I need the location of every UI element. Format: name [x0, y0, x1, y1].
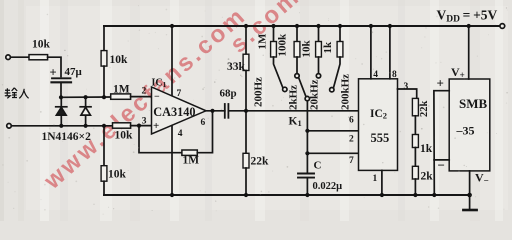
junction gnd/2k [413, 193, 417, 197]
contact 2kHz [295, 74, 299, 78]
svg-text:8: 8 [392, 70, 397, 80]
switch wiper arm [299, 78, 306, 97]
contact 200Hz [283, 87, 287, 91]
watermark fragment s.com [225, 0, 306, 58]
output wire [206, 110, 225, 112]
range resistor 1k vertical [339, 26, 341, 42]
wire cap to node [60, 83, 62, 98]
wire top input [10, 56, 29, 58]
resistor 10k to pin3 [113, 123, 131, 128]
diode D2 leads [85, 97, 87, 106]
junction rail/1k range [338, 24, 342, 28]
junction rail/555 pin4 [369, 24, 373, 28]
contact 20kHz [316, 74, 320, 78]
svg-text:SMB: SMB [459, 96, 488, 111]
feedback wire down [139, 126, 182, 153]
junction cap47u/node A [59, 95, 63, 99]
svg-text:7: 7 [349, 156, 354, 166]
input terminal bottom [7, 124, 12, 129]
svg-text:1M: 1M [113, 84, 130, 96]
svg-text:22k: 22k [251, 156, 270, 168]
junction wiper/pin7 [305, 151, 309, 155]
watermark www.elecfans.com [38, 2, 252, 195]
V+ wire [468, 26, 470, 79]
V- wire [469, 171, 471, 195]
resistor 2k divider [412, 166, 418, 179]
svg-text:100k: 100k [277, 33, 289, 57]
junction pin3 node [137, 124, 141, 128]
555 pin3 wire [398, 89, 417, 98]
range resistor 1M vertical [273, 26, 275, 42]
svg-text:200Hz: 200Hz [253, 77, 265, 107]
op-amp U1 triangle [152, 87, 207, 134]
junction gnd/C [305, 193, 309, 197]
junction node K1 [244, 109, 248, 113]
junction rail/1M range [271, 24, 275, 28]
range resistor 10k vertical [318, 26, 320, 42]
resistor 22k below node [245, 111, 247, 154]
IC2 555 box [359, 79, 398, 171]
svg-text:2: 2 [349, 134, 354, 144]
SMB meter box [449, 79, 490, 171]
svg-text:47μ: 47μ [65, 66, 83, 78]
capacitor C 0.022u [298, 173, 314, 175]
resistor 1M feedback [182, 150, 197, 155]
junction gnd/22k [244, 193, 248, 197]
junction gnd/meter input [432, 193, 436, 197]
wire 68p to node K [228, 110, 246, 112]
junction rail/555 pin8 [388, 24, 392, 28]
ground symbol [469, 195, 471, 209]
resistor 1M series [111, 94, 131, 99]
junction diode D2 top [84, 95, 88, 99]
contact 200kHz [330, 88, 334, 92]
junction gnd/pin4 [170, 193, 174, 197]
lead 2k-gnd [414, 179, 416, 195]
svg-text:555: 555 [371, 131, 390, 145]
cap C to ground [306, 178, 308, 195]
junction 10k pullup/node A [102, 95, 106, 99]
resistor 10k pullup vertical [103, 26, 105, 51]
1M lead to contact [274, 57, 283, 88]
555 pin8 wire [389, 26, 391, 79]
junction rail/10k range [316, 24, 320, 28]
wiper pole circle [305, 96, 309, 100]
wire to cap corner [48, 57, 61, 76]
range resistor 100k vertical [296, 26, 298, 42]
svg-text:2k: 2k [421, 171, 434, 183]
svg-text:+: + [50, 66, 57, 80]
svg-text:C: C [314, 160, 322, 172]
svg-text:10k: 10k [32, 39, 51, 51]
svg-text:10k: 10k [108, 169, 127, 181]
resistor 33k [245, 26, 247, 54]
op-amp pin4 wire [171, 126, 173, 195]
junction rail/V+ [467, 24, 471, 28]
svg-text:1k: 1k [420, 143, 433, 155]
junction gnd/555 pin1 [380, 193, 384, 197]
1k lead to contact [334, 57, 341, 88]
diode D1 [56, 106, 67, 108]
svg-text:VDD = +5V: VDD = +5V [437, 8, 498, 25]
junction diode D2 bottom [84, 124, 88, 128]
resistor 22k divider [412, 98, 418, 115]
resistor 10k lower vertical [103, 126, 105, 166]
svg-text:−: − [438, 158, 445, 173]
junction diode D1 bottom [59, 124, 63, 128]
svg-text:1: 1 [373, 174, 378, 184]
diode D2 [80, 106, 91, 108]
svg-text:K1: K1 [289, 115, 302, 128]
svg-text:+: + [153, 120, 159, 132]
resistor 10k input series [29, 55, 48, 60]
svg-text:6: 6 [201, 118, 206, 128]
svg-text:CA3140: CA3140 [153, 105, 195, 119]
meter + input wire [434, 91, 449, 195]
diode D1 leads [60, 97, 62, 106]
svg-text:+: + [437, 76, 444, 91]
svg-text:2: 2 [142, 87, 147, 97]
svg-text:1M: 1M [183, 155, 200, 167]
svg-text:200kHz: 200kHz [340, 74, 352, 110]
svg-text:2kHz: 2kHz [288, 85, 300, 110]
wire 1M to pin2 [131, 96, 152, 98]
wire bottom input [11, 125, 112, 127]
svg-text:−: − [154, 92, 160, 103]
555 pin4 wire [370, 26, 372, 79]
top VDD rail [104, 25, 500, 27]
wire to pin3 [131, 125, 152, 127]
svg-text:1k: 1k [322, 41, 334, 54]
junction output/feedback [210, 109, 214, 113]
node wire to 1M [61, 96, 111, 98]
ground rail [104, 194, 470, 196]
label input chinese [5, 88, 29, 99]
10k lead [318, 57, 320, 73]
svg-text:10k: 10k [301, 40, 313, 58]
svg-text:IC2: IC2 [370, 108, 387, 121]
svg-text:20kHz: 20kHz [309, 79, 321, 110]
svg-text:IC1: IC1 [152, 78, 167, 90]
svg-text:1M: 1M [257, 33, 269, 50]
svg-text:3: 3 [142, 117, 147, 127]
meter - input wire [434, 159, 449, 161]
feedback wire up [197, 111, 212, 153]
svg-text:7: 7 [177, 89, 182, 99]
wire to 555 pin7 [307, 152, 358, 154]
resistor 1k divider [412, 135, 418, 148]
lead 1k-2k [414, 148, 416, 167]
lead 22k-1k [414, 116, 416, 135]
svg-text:4: 4 [178, 129, 183, 139]
svg-text:22k: 22k [419, 101, 430, 118]
junction rail/100k range [295, 24, 299, 28]
svg-text:1N4146×2: 1N4146×2 [42, 131, 92, 143]
555 pin1 wire [381, 170, 383, 195]
junction rail/pin7 [170, 24, 174, 28]
junction gnd/V- [467, 193, 472, 198]
svg-text:0.022μ: 0.022μ [313, 181, 343, 192]
svg-text:68p: 68p [220, 88, 237, 100]
svg-text:33k: 33k [227, 61, 246, 73]
capacitor 68p [224, 104, 226, 118]
VDD terminal [500, 24, 505, 29]
wire K1 to 555 pin6 [246, 110, 359, 112]
input terminal top [6, 55, 11, 60]
capacitor 47u electrolytic [52, 77, 71, 79]
svg-text:4: 4 [373, 70, 378, 80]
junction wiper/pin2 [305, 129, 309, 133]
op-amp pin7 supply wire [171, 26, 173, 96]
svg-text:6: 6 [349, 115, 354, 125]
junction 10k lower/input line [102, 124, 106, 128]
svg-text:–35: –35 [456, 124, 475, 138]
wiper common wire down [306, 101, 308, 173]
svg-text:10k: 10k [110, 54, 129, 66]
100k lead [296, 57, 298, 73]
svg-text:3: 3 [404, 82, 409, 92]
junction rail/33k [244, 24, 248, 28]
wire to 555 pin2 [307, 130, 358, 132]
svg-text:10k: 10k [115, 130, 134, 142]
